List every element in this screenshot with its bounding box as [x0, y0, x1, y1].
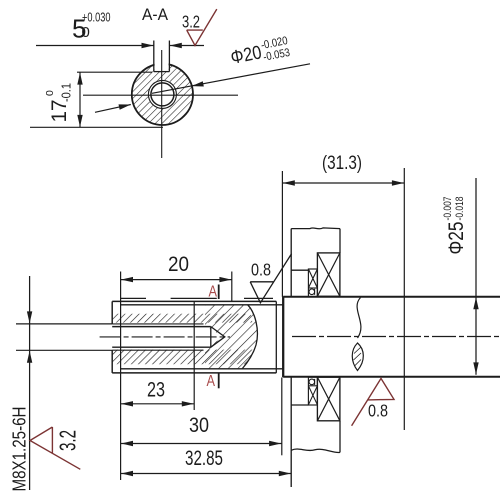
shaft axis centerline (left part): [100, 336, 230, 338]
dimension 20 (thread length): [121, 253, 232, 301]
upper oil seal (small crossed box with lip): [308, 269, 317, 297]
svg-text:A-A: A-A: [142, 6, 168, 24]
shaft side view outline (keyed/threaded end, local section): [112, 298, 283, 373]
svg-text:32.85: 32.85: [185, 447, 223, 470]
hatched local section areas of shaft: [112, 305, 257, 369]
svg-text:Φ25: Φ25: [445, 222, 468, 255]
phi25 journal shoulder face (thick): [282, 296, 284, 377]
svg-text:-0.007: -0.007: [442, 197, 454, 221]
M8 tapped hole: thread major lines (thin): [112, 324, 203, 350]
dimension 30: [121, 378, 282, 456]
surface finish 3.2 on thread (maroon check, rotated): [30, 427, 81, 469]
svg-text:+0.030: +0.030: [82, 10, 111, 24]
upper bearing (crossed square symbol): [317, 253, 340, 296]
svg-text:M8X1.25-6H: M8X1.25-6H: [9, 407, 30, 492]
crankcase wall (left face, wavy broken edges): [291, 228, 340, 487]
conventional break (S-curve and hatched lens) on phi25 shaft: [352, 298, 363, 371]
dimension 32.85 (overall): [121, 447, 292, 476]
svg-text:20: 20: [168, 253, 189, 276]
svg-text:23: 23: [147, 379, 165, 402]
svg-text:30: 30: [189, 414, 209, 437]
surface finish 3.2 (top, maroon check): [182, 9, 217, 45]
M8X1.25-6H thread callout with extension lines: [9, 276, 113, 492]
svg-text:3.2: 3.2: [55, 430, 81, 451]
dimension 17 0/-0.1 (keyway depth from bottom): [30, 72, 163, 127]
dimension 23 (drill depth): [121, 302, 195, 410]
lower oil seal (small crossed box with lip): [308, 377, 317, 405]
svg-text:-0.1: -0.1: [59, 83, 74, 102]
tapped hole M8 end view: thread major arc (thin) and minor circle (thick): [148, 80, 176, 108]
svg-text:0: 0: [44, 90, 56, 96]
section view A-A : shaft cross-section circle hatched: [132, 64, 193, 125]
dimension 5 +0.030/0 (keyway width): [36, 10, 204, 48]
shared left extension line of bottom dimensions: [120, 272, 122, 481]
svg-text:-0.018: -0.018: [454, 197, 466, 221]
surface finish 0.8 on shaft top (black check): [250, 254, 291, 303]
M8 tapped hole: drilled hole outline and drill cone: [112, 327, 225, 348]
svg-text:A: A: [207, 373, 216, 390]
svg-text:A: A: [209, 284, 218, 301]
phi25 axis centerline: [292, 336, 500, 338]
svg-text:0.8: 0.8: [251, 260, 271, 280]
section cutting plane tick (top) and red letter A: [209, 284, 219, 301]
svg-text:0.8: 0.8: [368, 401, 388, 421]
dimension phi25 -0.007/-0.018: [442, 178, 479, 375]
svg-text:3.2: 3.2: [182, 12, 200, 32]
svg-text:(31.3): (31.3): [322, 153, 362, 174]
section cutting plane tick (bottom) and red letter A: [207, 373, 219, 390]
phi25 journal outline: [283, 297, 500, 377]
local section break arc: [242, 305, 257, 369]
svg-text:0: 0: [82, 24, 90, 41]
leader and dimension phi20 -0.020/-0.053: [95, 35, 310, 112]
lower bearing (crossed square symbol): [317, 377, 340, 421]
keyway slot in cross-section (5 wide): [154, 41, 170, 72]
dimension (31.3) reference: [282, 153, 404, 430]
centerlines of circle: [83, 50, 238, 158]
surface finish 0.8 on phi25 journal (maroon check, below): [352, 378, 394, 425]
